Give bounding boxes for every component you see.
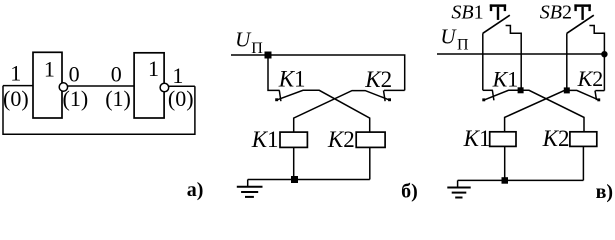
svg-text:SB2: SB2	[540, 1, 572, 23]
svg-text:K1: K1	[251, 127, 279, 152]
svg-text:0: 0	[69, 62, 80, 87]
svg-text:П: П	[457, 36, 469, 53]
svg-text:SB1: SB1	[451, 1, 483, 23]
svg-text:(0): (0)	[168, 86, 194, 111]
svg-text:1: 1	[44, 57, 55, 82]
svg-text:K1: K1	[278, 66, 306, 91]
svg-text:K1: K1	[492, 66, 519, 91]
svg-text:П: П	[251, 40, 263, 57]
svg-text:а): а)	[187, 179, 204, 201]
svg-text:U: U	[440, 24, 457, 48]
svg-text:1: 1	[148, 56, 159, 81]
svg-text:K1: K1	[463, 126, 491, 151]
svg-text:U: U	[235, 28, 252, 52]
svg-text:в): в)	[596, 181, 613, 203]
svg-text:0: 0	[111, 62, 122, 87]
svg-text:K2: K2	[542, 126, 570, 151]
svg-text:(1): (1)	[63, 86, 89, 111]
svg-text:K2: K2	[364, 67, 392, 92]
svg-text:(0): (0)	[3, 86, 29, 111]
svg-text:1: 1	[10, 61, 21, 86]
svg-text:K2: K2	[577, 66, 604, 91]
svg-text:б): б)	[401, 180, 418, 202]
svg-text:(1): (1)	[105, 86, 131, 111]
svg-text:1: 1	[172, 63, 183, 88]
svg-text:K2: K2	[327, 127, 355, 152]
